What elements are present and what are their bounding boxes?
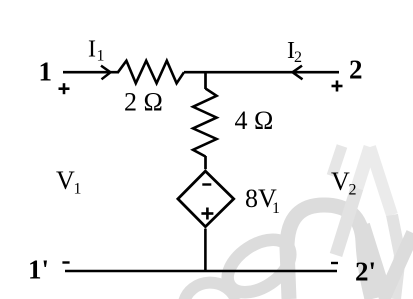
svg-text:I: I [88, 37, 96, 63]
resistor R1 2ohm [118, 61, 184, 84]
svg-text:V: V [56, 166, 75, 195]
wire port1 to resistor [63, 71, 119, 74]
dependent source diamond [178, 171, 234, 227]
watermark ring 0 [218, 229, 300, 299]
svg-text:2: 2 [349, 182, 357, 199]
watermark V stroke [363, 225, 413, 295]
arrow I2 [293, 66, 303, 80]
svg-text:2: 2 [294, 49, 302, 66]
wire resistor to source [204, 156, 207, 169]
minus at port 1' [62, 261, 69, 263]
watermark right leg [370, 147, 392, 215]
svg-text:1: 1 [97, 48, 105, 65]
wire resistor to port 2 [184, 71, 339, 74]
svg-text:2': 2' [355, 257, 376, 287]
arrow I1 [101, 66, 111, 80]
bottom rail wire [65, 270, 337, 273]
svg-text:V: V [331, 167, 350, 196]
minus inside diamond [202, 183, 211, 185]
resistor R2 4ohm [193, 89, 217, 157]
svg-text:1': 1' [28, 254, 49, 284]
watermark arch [287, 205, 372, 299]
svg-text:1: 1 [272, 200, 280, 217]
svg-text:2: 2 [349, 55, 363, 85]
plus sign at port 2 [332, 81, 343, 92]
wire source to bottom rail [204, 229, 207, 271]
svg-text:1: 1 [39, 56, 53, 86]
watermark stub near V2 [332, 146, 342, 176]
plus sign at port 1 [59, 83, 70, 94]
svg-text:2 Ω: 2 Ω [124, 88, 163, 117]
watermark diagonal stroke [357, 147, 370, 188]
wire junction stub [204, 72, 207, 89]
watermark arc bottom-left [184, 283, 236, 299]
svg-text:4 Ω: 4 Ω [235, 106, 274, 135]
svg-text:1: 1 [74, 181, 82, 198]
plus inside diamond [201, 208, 213, 220]
minus at port 2' [331, 262, 338, 264]
